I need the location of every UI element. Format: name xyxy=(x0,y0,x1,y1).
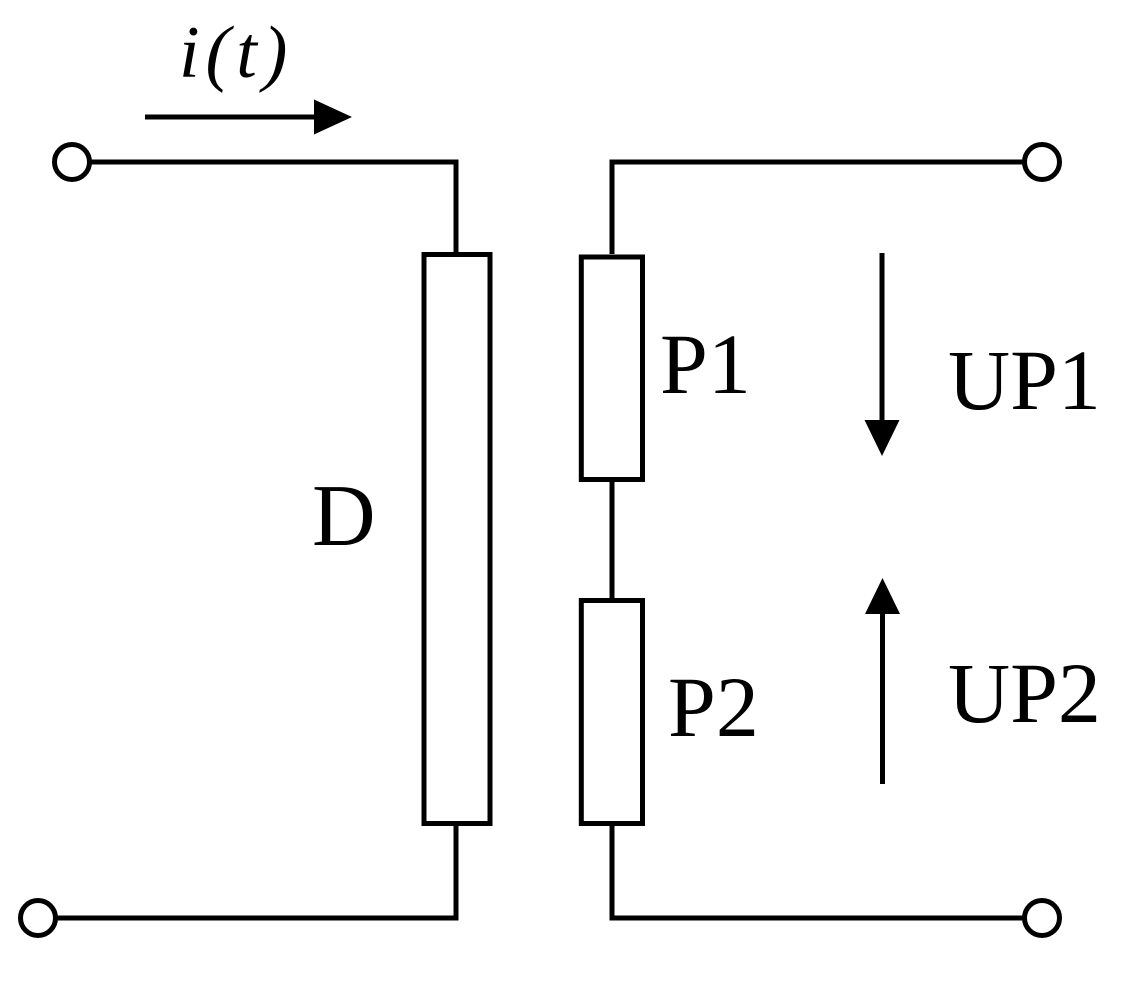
resistor P2 xyxy=(581,601,642,824)
terminal top-right xyxy=(1025,145,1060,180)
resistor P1 xyxy=(581,257,642,480)
svg-text:P2: P2 xyxy=(668,659,759,755)
wire top-right xyxy=(612,162,1023,254)
terminal bottom-left xyxy=(21,901,56,936)
terminal bottom-right xyxy=(1025,901,1060,936)
wire bottom-right xyxy=(612,824,1023,918)
arrow UP1 (down) xyxy=(865,253,900,456)
svg-text:P1: P1 xyxy=(660,316,751,412)
terminal top-left xyxy=(55,145,90,180)
svg-text:UP1: UP1 xyxy=(948,332,1101,428)
svg-text:UP2: UP2 xyxy=(948,645,1101,741)
arrow UP2 (up) xyxy=(865,578,900,784)
svg-text:i(t): i(t) xyxy=(179,12,293,94)
wire bottom-left xyxy=(57,824,456,918)
resistor D xyxy=(424,255,490,824)
svg-text:D: D xyxy=(312,468,376,565)
wire top-left xyxy=(91,162,456,254)
current arrow i(t) xyxy=(145,100,352,135)
wire P1-P2 junction xyxy=(610,480,615,602)
